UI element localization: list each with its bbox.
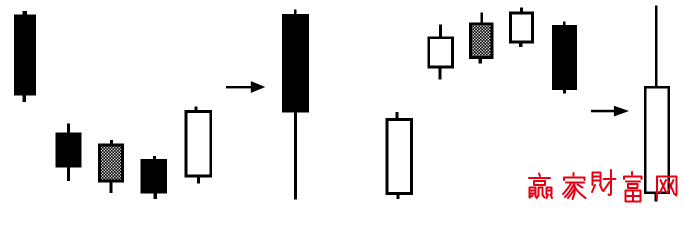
char ying (529, 174, 552, 199)
candle 8 small white: wick top (439, 25, 442, 38)
candle 4 small black: wick top (153, 156, 156, 160)
char fu (624, 172, 642, 202)
candle 4 small black: wick bottom (154, 193, 157, 199)
candle 7 tall white: wick bottom (397, 194, 400, 199)
candle 8 small white: wick bottom (439, 66, 442, 80)
watermark 赢家财富网 in red (529, 170, 677, 202)
candle 8 small white: body (429, 38, 453, 67)
candle 9 checkered: wick bottom (479, 59, 482, 64)
candle 2 small black: body (56, 133, 82, 168)
candle 10 small white: body (510, 13, 532, 42)
candle 7 tall white: body (387, 119, 412, 193)
candle 12 white: wick bottom (655, 194, 658, 202)
arrow 1 (226, 81, 265, 93)
char jia (563, 173, 586, 199)
candle 4 small black: body (141, 159, 168, 193)
char wang (657, 177, 677, 199)
candle 9 checkered: body (470, 24, 492, 58)
candle 1 big black: wick top (23, 11, 28, 16)
candle 6 big black: body (282, 14, 309, 112)
candle 6 big black: wick bottom long (294, 112, 297, 200)
candle 1 big black: body (14, 15, 36, 96)
candle 12 white long upper shadow: wick top long (655, 6, 658, 87)
candle 3 checkered: wick top (110, 140, 113, 145)
candle 2 small black: wick top (67, 123, 70, 133)
candle 12 white: body (645, 87, 668, 192)
candle 7 tall white: wick top (396, 112, 399, 119)
candle 10 small white: wick top (520, 8, 523, 13)
candle 2 small black: wick bottom (67, 167, 70, 182)
candle 11 black: wick bottom (563, 90, 566, 94)
char cai (592, 170, 616, 195)
candle 6 big black: wick top (294, 10, 297, 16)
candle 11 black: body (552, 25, 577, 90)
arrow 2 (591, 106, 629, 117)
candle 9 checkered: wick top (480, 13, 483, 24)
candle 3 checkered: wick bottom (109, 182, 112, 193)
candle 5 white: body (186, 111, 211, 176)
candle 10 small white: wick bottom (519, 43, 522, 47)
candle 3 checkered: body (99, 145, 122, 181)
candle 11 black: wick top (563, 21, 566, 26)
candle 5 white: wick bottom (197, 177, 200, 184)
candle 5 white: wick top (195, 107, 198, 112)
candle 1 big black: wick bottom (23, 95, 26, 102)
